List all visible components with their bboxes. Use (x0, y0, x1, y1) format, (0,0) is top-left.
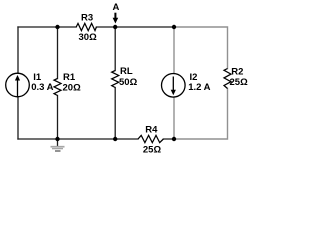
svg-text:50Ω: 50Ω (119, 77, 138, 88)
svg-text:R1: R1 (63, 72, 76, 83)
svg-text:RL: RL (120, 66, 133, 77)
svg-text:20Ω: 20Ω (63, 83, 82, 94)
svg-text:25Ω: 25Ω (230, 77, 249, 88)
svg-text:0.3 A: 0.3 A (31, 82, 53, 93)
svg-text:R3: R3 (81, 12, 93, 23)
svg-text:A: A (113, 2, 120, 13)
svg-text:25Ω: 25Ω (143, 144, 162, 155)
svg-text:1.2 A: 1.2 A (188, 82, 210, 93)
svg-text:30Ω: 30Ω (79, 32, 98, 43)
svg-text:R4: R4 (145, 125, 158, 136)
svg-text:R2: R2 (231, 67, 243, 78)
